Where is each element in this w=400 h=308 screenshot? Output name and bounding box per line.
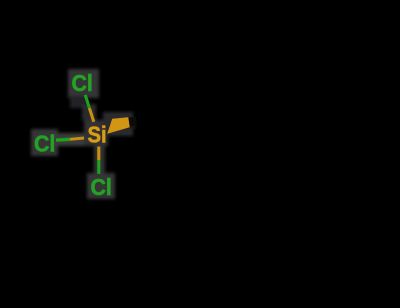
compression halo blocks bbox=[31, 69, 135, 199]
wire: substituent stub right bbox=[338, 136, 365, 148]
bond Si-Cl left (Cl half) bbox=[56, 138, 70, 142]
bond Si-Cl top (Si half) bbox=[89, 108, 93, 122]
bond Si-Cl bottom (Si half) bbox=[97, 147, 100, 161]
svg-text:Cl: Cl bbox=[34, 131, 55, 157]
svg-text:Cl: Cl bbox=[91, 174, 112, 200]
bond Si-Cl top (Cl half) bbox=[85, 95, 89, 108]
wedge bond Si half bbox=[107, 117, 130, 134]
svg-text:Si: Si bbox=[88, 121, 107, 148]
node ring: cyclohexane ring bbox=[212, 94, 338, 207]
bond Si-Cl left (Si half) bbox=[70, 138, 84, 139]
bond Si-Cl bottom (Cl half) bbox=[97, 160, 100, 174]
faint carbon skeleton (near-black) bbox=[134, 94, 365, 207]
wedge bond carbon half (near-invisible) bbox=[128, 117, 137, 127]
wire: chain from wedge to ring bbox=[134, 121, 212, 150]
svg-text:Cl: Cl bbox=[72, 70, 93, 96]
